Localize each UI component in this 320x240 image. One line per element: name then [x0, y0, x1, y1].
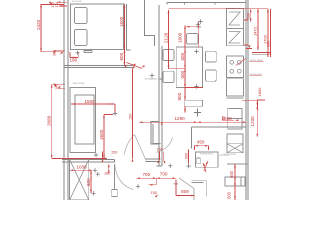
svg-text:300: 300	[53, 50, 57, 56]
vanity	[196, 152, 218, 167]
wardrobe top 1	[227, 9, 244, 29]
survey cross	[174, 182, 178, 186]
svg-text:160: 160	[157, 147, 163, 151]
sofa inner	[75, 95, 94, 144]
bathroom left wall	[153, 124, 161, 144]
survey cross	[198, 19, 202, 23]
svg-text:500: 500	[246, 12, 251, 19]
svg-text:450: 450	[197, 139, 205, 144]
living bottom wall 2	[62, 160, 114, 163]
right wall outer	[245, 0, 247, 200]
dining table	[176, 47, 202, 88]
sofa outer	[70, 88, 96, 153]
bath door swing arc	[115, 164, 133, 189]
survey cross	[197, 25, 201, 29]
svg-text:1200: 1200	[250, 116, 255, 127]
survey cross	[186, 164, 190, 168]
svg-text:150: 150	[128, 114, 132, 120]
bed	[71, 4, 124, 50]
bathroom door leaf	[179, 178, 194, 200]
survey cross	[136, 184, 140, 188]
svg-text:500: 500	[226, 191, 231, 199]
bench at bed foot	[84, 51, 92, 53]
chair L2	[163, 71, 174, 82]
survey cross	[194, 84, 198, 88]
survey cross	[91, 191, 95, 195]
hob burner 1	[230, 60, 234, 64]
svg-text:560: 560	[184, 153, 188, 159]
svg-text:posudomoy: posudomoy	[250, 73, 263, 76]
bathroom top wall	[192, 127, 246, 149]
hob counter	[227, 56, 244, 78]
bedroom right wall	[126, 4, 130, 50]
bath door frame	[112, 190, 117, 197]
chair R1	[206, 51, 217, 62]
duct niche	[151, 121, 159, 144]
svg-text:1600: 1600	[99, 129, 104, 140]
cabinet above shaft	[227, 134, 243, 144]
hall bottom wall 2	[145, 161, 162, 166]
bathroom column fixtures	[227, 163, 248, 165]
svg-text:700: 700	[160, 172, 168, 177]
svg-text:190: 190	[70, 57, 78, 62]
svg-text:150: 150	[111, 151, 117, 155]
svg-text:2126: 2126	[163, 32, 168, 43]
svg-text:302: 302	[55, 84, 59, 89]
living bottom wall 1	[62, 159, 114, 161]
shaft crossed box	[227, 144, 243, 153]
svg-text:150: 150	[151, 191, 157, 195]
svg-text:170: 170	[55, 2, 59, 8]
svg-text:tumba rakov: tumba rakov	[200, 153, 214, 156]
svg-text:1600: 1600	[119, 16, 124, 27]
svg-text:500: 500	[180, 52, 185, 60]
toilet outline	[192, 180, 207, 196]
svg-text:500: 500	[180, 70, 185, 78]
hob burner 2	[237, 60, 241, 64]
hall door swing arc	[124, 135, 134, 155]
wardrobe hanger 2	[229, 32, 240, 44]
svg-text:600: 600	[119, 52, 124, 60]
svg-text:1470: 1470	[253, 26, 258, 36]
fridge	[228, 109, 242, 130]
left wall inner	[67, 0, 69, 200]
svg-text:600: 600	[266, 41, 270, 47]
svg-text:90: 90	[222, 116, 226, 120]
hob burner 4	[237, 69, 241, 73]
kitchen wall outer	[158, 5, 160, 166]
wardrobe top 2	[227, 29, 244, 46]
svg-text:divan kniga: divan kniga	[73, 82, 86, 85]
survey cross	[93, 168, 97, 172]
svg-text:sp.mesto: sp.mesto	[72, 0, 82, 3]
hob burner 3	[230, 69, 234, 73]
survey cross	[196, 22, 200, 26]
shaft bottom-left crossed	[70, 160, 89, 200]
svg-text:1500: 1500	[85, 99, 96, 104]
hall upper wall jog	[145, 0, 155, 46]
svg-text:2689: 2689	[47, 115, 52, 126]
svg-text:700: 700	[143, 172, 151, 177]
svg-text:1030: 1030	[76, 165, 87, 170]
wardrobe dim marks	[40, 4, 42, 52]
dim 1290 / 1690	[194, 109, 201, 117]
survey cross	[94, 153, 98, 157]
svg-text:800: 800	[86, 178, 91, 186]
annotation underlines right	[252, 54, 268, 56]
oven	[227, 79, 244, 96]
bedroom top wall	[71, 3, 125, 5]
svg-text:1290: 1290	[175, 116, 186, 121]
vanity basin	[197, 158, 201, 164]
survey cross	[75, 51, 79, 55]
bedroom bottom wall line1	[64, 64, 133, 66]
svg-text:1800: 1800	[257, 87, 262, 97]
survey cross	[194, 49, 198, 53]
fridge shelf	[228, 117, 242, 119]
right wall inner	[247, 0, 249, 200]
svg-text:800: 800	[177, 92, 182, 100]
svg-text:tumba: tumba	[85, 50, 92, 53]
kitchen top wall	[167, 2, 246, 4]
svg-text:559: 559	[181, 189, 189, 194]
kitchen wall inner	[161, 46, 163, 166]
survey cross	[168, 164, 172, 168]
washer box	[225, 177, 245, 186]
svg-text:2420: 2420	[36, 19, 41, 30]
survey cross	[113, 111, 117, 115]
chair L1	[163, 50, 174, 61]
svg-text:160: 160	[104, 172, 110, 176]
hall door leaf	[135, 135, 147, 161]
svg-text:stir.mash: stir.mash	[220, 154, 230, 157]
pillow 1	[75, 8, 88, 24]
svg-text:600: 600	[229, 170, 234, 178]
bedroom bottom wall line2	[64, 66, 133, 68]
wardrobe hanger 1	[229, 12, 240, 25]
bath door leaf	[113, 164, 115, 190]
bench below table	[185, 100, 203, 106]
survey cross	[150, 73, 154, 77]
chair R2	[206, 70, 217, 81]
left wall outer	[63, 0, 65, 200]
hall bottom wall 1	[145, 158, 160, 160]
pillow 2	[75, 30, 88, 46]
survey cross	[96, 172, 100, 176]
svg-text:duhov shkaf: duhov shkaf	[250, 59, 263, 62]
chair head	[187, 34, 199, 45]
kitchen door swing arc	[156, 137, 172, 152]
svg-text:1800: 1800	[178, 32, 183, 43]
